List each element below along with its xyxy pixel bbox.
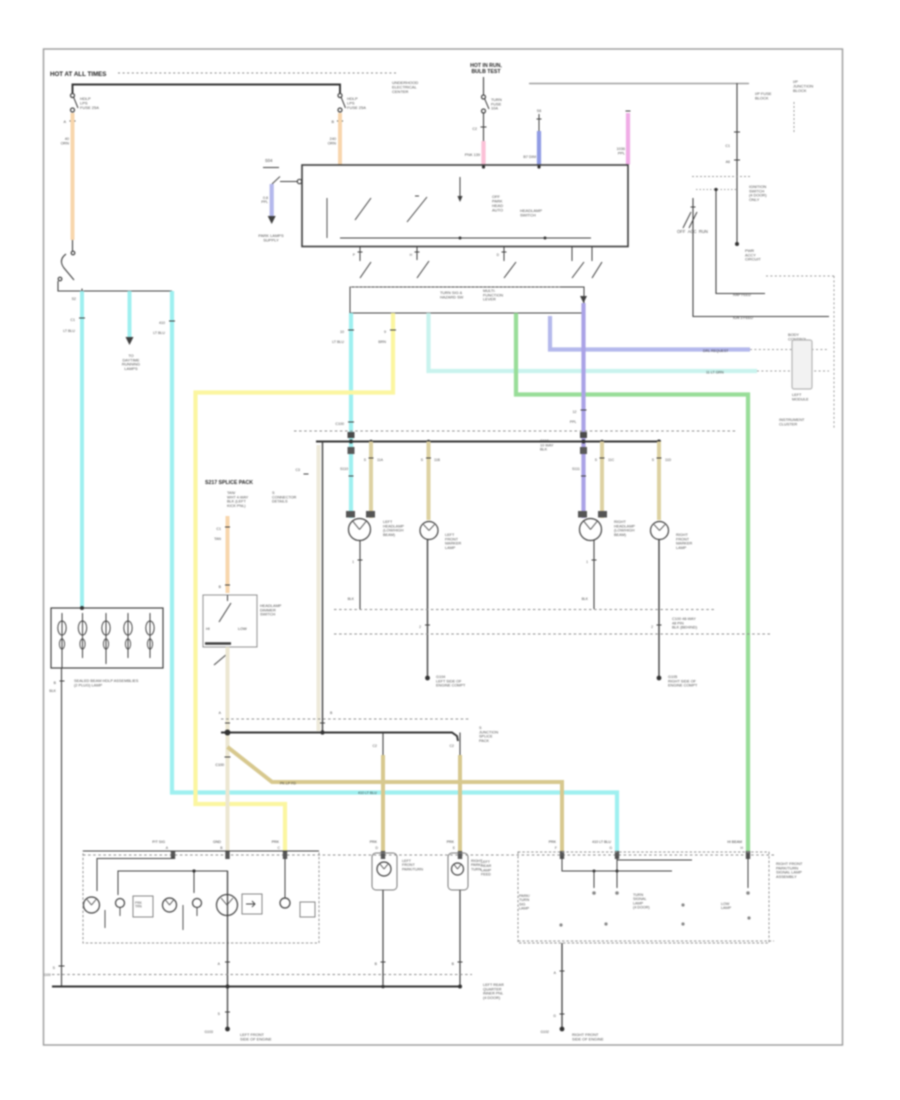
svg-text:S: S [53, 966, 56, 970]
svg-text:B: B [330, 711, 333, 715]
ground left front [225, 1027, 230, 1032]
tick on cream [225, 756, 231, 758]
wire ignition vertical [736, 83, 738, 244]
wire orange right fuse [338, 113, 342, 165]
svg-text:BLOCK: BLOCK [793, 88, 807, 93]
svg-text:DRL REQUEST: DRL REQUEST [703, 349, 729, 353]
svg-text:9: 9 [384, 330, 386, 334]
wire cyan C1 vertical [80, 291, 84, 607]
wire drop from label [483, 77, 485, 95]
wire tan marker left [427, 442, 431, 521]
svg-text:S110: S110 [340, 467, 348, 471]
element small 3 [280, 898, 290, 908]
wire tan diagonal run [228, 747, 563, 853]
switch pin dot blue [537, 165, 540, 168]
svg-text:PRK: PRK [549, 840, 557, 844]
dashed line ign [692, 176, 752, 178]
svg-text:MODULE: MODULE [792, 396, 809, 401]
solid bottom bus [52, 986, 462, 988]
svg-text:G103: G103 [204, 1030, 213, 1034]
bulb right marker [651, 522, 669, 540]
svg-text:GND: GND [213, 840, 221, 844]
connector mark cyan bus [348, 432, 355, 438]
svg-text:C100: C100 [215, 763, 224, 767]
svg-text:BLOCK: BLOCK [755, 95, 769, 100]
left box inner feed [97, 856, 173, 891]
svg-text:(4 DOOR): (4 DOOR) [633, 905, 650, 909]
right box ground wire [561, 943, 563, 1029]
dashes pale cyan to BCM [757, 370, 829, 372]
connector blob G [615, 851, 619, 859]
svg-text:C1: C1 [70, 318, 75, 322]
svg-text:D: D [497, 253, 500, 257]
svg-text:PRK: PRK [370, 840, 378, 844]
svg-text:BLK (BEHIND): BLK (BEHIND) [672, 626, 698, 630]
svg-text:LAMP: LAMP [676, 546, 687, 550]
bulb left headlamp [349, 519, 371, 541]
svg-text:LAMP: LAMP [445, 546, 456, 550]
right box marks [592, 891, 596, 895]
svg-text:SIDE OF ENGINE: SIDE OF ENGINE [572, 1036, 604, 1041]
svg-text:TAN: TAN [214, 537, 221, 541]
wire below fuse [483, 113, 485, 141]
ignition switch contacts [683, 212, 691, 228]
lamp bus horizontal [316, 441, 659, 443]
fuse HDLP LPS left [71, 94, 75, 98]
wire orange ORN left fuse [71, 113, 75, 240]
svg-text:S: S [595, 458, 598, 462]
svg-text:H: H [741, 846, 744, 850]
svg-text:KICK PNL): KICK PNL) [227, 504, 246, 508]
socket right park turn [448, 853, 468, 890]
BCM module box [792, 340, 812, 389]
dashed ground bus 1 [334, 609, 716, 611]
svg-text:1: 1 [586, 560, 588, 564]
right box inner rail 1 [616, 856, 618, 888]
dashed lower bus [221, 718, 470, 720]
switch inner rail [340, 237, 591, 239]
park supply tick [263, 167, 279, 169]
connector tick C1 [70, 120, 76, 122]
switch arm 1 [355, 198, 371, 220]
fuse element blk 4 [127, 613, 129, 621]
arrow to DRL module [126, 337, 134, 345]
wire blue DK BLU [537, 131, 541, 165]
svg-text:S2: S2 [72, 297, 76, 301]
svg-text:S: S [421, 458, 424, 462]
sub box multifunction [350, 287, 584, 313]
svg-text:S6: S6 [537, 109, 541, 113]
connector blob D [381, 851, 385, 859]
tick C2 [337, 120, 343, 122]
solid lower bus [221, 733, 458, 742]
dashed connector row [83, 854, 774, 856]
svg-text:SWITCH: SWITCH [520, 212, 536, 217]
svg-text:ASSEMBLY: ASSEMBLY [776, 874, 797, 879]
wire socket1 ground [382, 890, 384, 985]
wire stub blue top [538, 114, 540, 131]
arrow under switch [580, 296, 587, 303]
wire magenta [626, 113, 630, 165]
svg-text:C1: C1 [216, 527, 221, 531]
svg-text:LT BLU: LT BLU [332, 340, 344, 344]
svg-text:LAMPS: LAMPS [124, 366, 138, 371]
connector blob H [746, 851, 750, 859]
svg-text:BLK: BLK [348, 597, 355, 601]
tick block [60, 680, 65, 682]
svg-text:HI BEAM: HI BEAM [727, 840, 742, 844]
tick lower 2 [320, 722, 325, 724]
dimmer low bar [205, 642, 231, 645]
bulb right headlamp [580, 519, 602, 541]
wire cream parallel [317, 445, 321, 731]
wire yellow park feed [196, 313, 394, 853]
element small 2 [193, 899, 202, 908]
svg-text:LAMP: LAMP [519, 906, 530, 910]
wire green inside box [747, 854, 749, 888]
pin labels right hl [578, 511, 587, 518]
tick on cyan C2 [169, 320, 175, 322]
svg-text:PK LP FD: PK LP FD [280, 782, 296, 786]
wire cream below dimmer [226, 647, 230, 853]
wire lavender park supply [270, 184, 274, 216]
svg-text:B: B [220, 846, 223, 850]
svg-text:BLK: BLK [540, 448, 548, 452]
component box L3 [300, 902, 315, 917]
arrowhead park supply [268, 216, 276, 224]
svg-text:TURN: TURN [471, 867, 482, 871]
wire tan marker right [657, 442, 661, 521]
svg-text:(4 DOOR): (4 DOOR) [483, 996, 501, 1000]
left box inner rail [118, 871, 228, 895]
junction tick [81, 289, 83, 294]
ground G1 [425, 676, 430, 681]
svg-text:B7 DIM: B7 DIM [523, 155, 536, 159]
svg-text:PRK: PRK [272, 840, 280, 844]
svg-text:11D: 11D [665, 458, 672, 462]
svg-text:B: B [219, 585, 222, 589]
svg-text:11B: 11B [434, 458, 441, 462]
svg-text:AUTO: AUTO [492, 207, 503, 212]
wire tan park left [381, 755, 385, 853]
right lamp assembly box [518, 852, 769, 943]
fuse HDLP right [338, 94, 342, 98]
svg-text:HI: HI [206, 627, 210, 631]
dotted line ign2 [696, 189, 738, 191]
ground right front [560, 1027, 565, 1032]
fuse element blk 2 [82, 613, 84, 621]
wire socket2 ground [459, 890, 461, 985]
svg-text:S04: S04 [265, 158, 273, 163]
connector blob B [225, 851, 229, 859]
right box bottom dashed [518, 940, 774, 942]
svg-text:1: 1 [352, 560, 354, 564]
tick tan2 [426, 457, 431, 459]
svg-text:PACK: PACK [479, 739, 490, 743]
wire orange dimmer [226, 516, 230, 593]
tick yellow [390, 329, 396, 331]
connector block box [51, 608, 163, 668]
component box L2 [242, 894, 262, 914]
wire below left hl [359, 541, 361, 610]
stub park right [459, 733, 461, 756]
svg-text:CENTER: CENTER [392, 89, 409, 94]
fuse element blk 5 [149, 613, 151, 621]
svg-text:P: P [353, 253, 356, 257]
wire cyan headlamp left [349, 313, 353, 518]
svg-text:G102: G102 [540, 1030, 549, 1034]
svg-text:A: A [218, 962, 221, 966]
dotted header rule [118, 72, 397, 74]
tick tan4 [657, 457, 662, 459]
bulb left marker [420, 522, 438, 540]
connector blob C [283, 851, 287, 859]
svg-text:C2: C2 [373, 744, 378, 748]
tick lower 1 [225, 722, 230, 724]
svg-text:B: B [375, 962, 378, 966]
stub below 2 [182, 905, 184, 930]
svg-text:10A: 10A [491, 106, 498, 111]
dimmer switch box [203, 595, 257, 647]
thin rail top right [529, 83, 749, 85]
tick tan1 [369, 457, 374, 459]
dashed connector right [793, 102, 795, 134]
svg-text:11 LT GRN: 11 LT GRN [706, 371, 724, 375]
node dot ignition [735, 242, 739, 246]
contact stub 1 [359, 247, 361, 262]
svg-text:CLUSTER: CLUSTER [779, 421, 797, 426]
dashed ground bus 2 [334, 633, 770, 635]
svg-text:HAZARD SW: HAZARD SW [440, 294, 464, 299]
svg-text:B: B [331, 120, 334, 124]
svg-text:S: S [364, 458, 367, 462]
contact stub 3 [503, 247, 505, 262]
svg-text:IGN 3 FEED: IGN 3 FEED [733, 316, 753, 320]
svg-text:A: A [219, 711, 222, 715]
power bus B+ top-left [73, 85, 341, 94]
connector blob A [171, 851, 175, 859]
svg-text:PPL: PPL [618, 151, 625, 155]
svg-text:C100: C100 [335, 422, 344, 426]
wire stub magenta top [626, 110, 631, 112]
dimmer lower arm [214, 654, 227, 665]
svg-text:11A: 11A [377, 458, 384, 462]
svg-text:FUSE 25A: FUSE 25A [80, 105, 99, 110]
headlamp switch box U1 [302, 165, 628, 247]
tick lg2 [225, 1011, 230, 1013]
svg-text:TRN: TRN [135, 905, 142, 909]
svg-text:SIDE OF ENGINE: SIDE OF ENGINE [240, 1036, 272, 1041]
wire below right hl [593, 541, 595, 610]
svg-text:ORN: ORN [61, 141, 70, 145]
circuit breaker symbol [72, 240, 74, 251]
stub below 1 [104, 910, 106, 928]
contact stub 4 [571, 247, 573, 262]
svg-text:A: A [63, 120, 66, 124]
svg-text:S217 SPLICE PACK: S217 SPLICE PACK [205, 480, 253, 486]
svg-text:C: C [278, 846, 281, 850]
svg-text:ENGINE COMPT: ENGINE COMPT [436, 684, 466, 688]
svg-text:B: B [452, 962, 455, 966]
switch pin dot pink [482, 165, 485, 168]
svg-text:410 LT BLU: 410 LT BLU [592, 840, 611, 844]
dimmer switch arm [219, 603, 231, 622]
wire tan hl left inner [369, 442, 373, 519]
lamp bus left leg [322, 442, 324, 732]
tick dimmer feed 2 [225, 584, 230, 586]
tick S217 top [304, 473, 309, 475]
svg-text:C1: C1 [725, 144, 730, 148]
component box L1 [133, 896, 153, 917]
svg-text:PPL: PPL [261, 200, 268, 204]
wire to splice row [58, 281, 172, 291]
svg-text:G09: G09 [44, 973, 51, 977]
svg-text:ORN: ORN [328, 141, 337, 145]
svg-text:(2 PLUG) LAMP: (2 PLUG) LAMP [74, 682, 103, 687]
wire lavender flash [550, 316, 750, 350]
svg-text:F: F [555, 846, 557, 850]
fuse element blk 1 [61, 613, 63, 621]
svg-text:D: D [376, 846, 379, 850]
stub park left [382, 733, 384, 756]
svg-text:G: G [553, 1014, 556, 1018]
connector blob E [458, 851, 462, 859]
wire cyan C2 vertical long [172, 291, 617, 856]
svg-text:10: 10 [340, 330, 344, 334]
svg-text:S111: S111 [572, 467, 580, 471]
svg-text:C2: C2 [450, 744, 455, 748]
svg-text:ONLY: ONLY [749, 197, 760, 202]
svg-text:LEVER: LEVER [483, 297, 496, 302]
svg-text:FUSE 25A: FUSE 25A [347, 105, 366, 110]
switch arm 2 [407, 197, 427, 222]
ground G2 [657, 676, 662, 681]
svg-text:RAP FEED: RAP FEED [733, 293, 751, 297]
bulb turn left [163, 898, 177, 912]
contact stub 2 [416, 247, 418, 261]
svg-text:SUPPLY: SUPPLY [263, 237, 279, 242]
connector mark violet bus [580, 432, 587, 438]
tick ign 2 [734, 159, 740, 161]
tick ign 1 [734, 131, 740, 133]
svg-text:LAMP: LAMP [721, 906, 732, 910]
fuse element blk 3 [105, 613, 107, 621]
tick dimmer feed [225, 526, 230, 528]
svg-text:PPL: PPL [570, 420, 577, 424]
svg-text:G: G [609, 846, 612, 850]
wire cyan stub to DRL [128, 291, 132, 338]
svg-text:A: A [554, 971, 557, 975]
svg-text:C3: C3 [296, 468, 301, 472]
wire tan hl right inner [600, 442, 604, 519]
tick rg2 [560, 1013, 565, 1015]
connector blob F [560, 851, 564, 859]
svg-text:PNK 139: PNK 139 [465, 153, 480, 157]
svg-text:11C: 11C [608, 458, 615, 462]
wire pink PNK [481, 141, 485, 165]
dashes lavender to BCM [750, 349, 829, 351]
park supply link [272, 177, 280, 185]
svg-text:C2: C2 [472, 127, 477, 131]
dashed boundary mid [294, 430, 737, 432]
block pins bottom [61, 658, 63, 668]
svg-text:A6: A6 [726, 160, 730, 164]
svg-text:12: 12 [573, 410, 577, 414]
svg-text:2: 2 [651, 625, 653, 629]
svg-text:2: 2 [419, 625, 421, 629]
svg-text:FEED: FEED [481, 872, 491, 876]
tick lavender hl [581, 409, 587, 411]
left bottom connector sym [59, 965, 65, 967]
tick on cyan C1 [79, 317, 85, 319]
tick cyan hl [348, 329, 354, 331]
svg-text:S: S [218, 1012, 221, 1016]
node cyan into block [80, 606, 84, 610]
node dots lower bus [225, 730, 231, 736]
svg-text:SWITCH: SWITCH [260, 612, 276, 617]
socket left park turn [372, 853, 397, 890]
svg-text:E: E [453, 846, 456, 850]
wire ign branch 2 [693, 198, 829, 317]
left block ground wire [61, 668, 63, 987]
tick lg1 [225, 961, 230, 963]
svg-text:H: H [410, 253, 413, 257]
wire ground right marker [658, 540, 660, 679]
tick rg1 [560, 970, 565, 972]
node dots bottom bus [226, 985, 230, 989]
wire ign branch 1 [716, 191, 765, 294]
tick tan3 [600, 457, 605, 459]
left box ground wire [227, 871, 229, 1029]
svg-text:DETAILS: DETAILS [272, 500, 288, 504]
svg-text:HOT AT ALL TIMES: HOT AT ALL TIMES [50, 71, 106, 78]
dashed right column [833, 276, 835, 428]
element small 1 [116, 899, 125, 908]
svg-text:BEAM): BEAM) [383, 533, 396, 537]
wire lavender headlamp right [581, 303, 585, 518]
wire pale cyan low beam [429, 313, 758, 371]
fuse TURN HAZ [482, 95, 486, 99]
right box inner rail 2 [562, 856, 672, 871]
svg-text:P/T SIG: P/T SIG [152, 840, 165, 844]
svg-text:BLK: BLK [49, 689, 56, 693]
svg-text:LOW: LOW [238, 627, 247, 631]
wire ground left marker [427, 540, 429, 679]
svg-text:410 LT BLU: 410 LT BLU [358, 791, 377, 795]
wire tan park right [458, 755, 462, 853]
svg-text:LT BLU: LT BLU [63, 329, 75, 333]
left lamp assembly box [83, 851, 319, 943]
svg-text:S: S [652, 458, 655, 462]
svg-text:PARK/TURN: PARK/TURN [402, 867, 423, 871]
svg-text:B: B [54, 681, 57, 685]
svg-text:BULB TEST: BULB TEST [471, 69, 501, 75]
svg-text:PRK: PRK [447, 840, 455, 844]
svg-text:410: 410 [159, 321, 165, 325]
svg-text:BLK: BLK [582, 597, 589, 601]
bulb park left [84, 897, 100, 913]
switch arrow [459, 177, 461, 196]
svg-text:ENGINE COMPT: ENGINE COMPT [668, 684, 698, 688]
bulb main left [217, 895, 238, 916]
dashed bottom bus [52, 974, 472, 976]
svg-text:A: A [166, 846, 169, 850]
svg-text:CIRCUIT: CIRCUIT [745, 257, 761, 262]
svg-text:BRN: BRN [378, 340, 386, 344]
pin labels left hl [346, 511, 355, 518]
svg-text:BEAM): BEAM) [614, 533, 627, 537]
wire green high beam [516, 313, 748, 853]
